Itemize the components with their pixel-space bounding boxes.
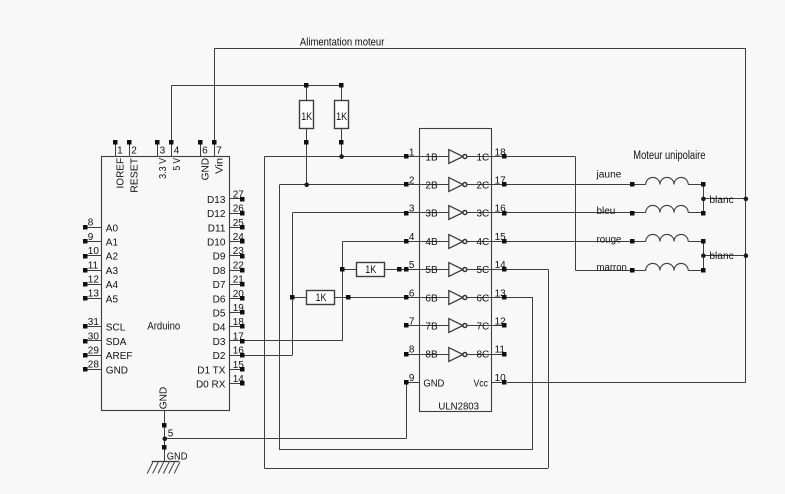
svg-text:marron: marron	[597, 262, 627, 273]
svg-text:14: 14	[233, 374, 245, 385]
svg-text:A1: A1	[106, 238, 119, 249]
svg-text:26: 26	[233, 204, 245, 215]
svg-text:A2: A2	[106, 252, 119, 263]
svg-text:GND: GND	[423, 378, 444, 389]
svg-text:6: 6	[409, 288, 415, 299]
svg-text:1: 1	[409, 147, 415, 158]
svg-text:2: 2	[131, 145, 137, 156]
svg-text:29: 29	[88, 346, 100, 357]
svg-text:11: 11	[88, 260, 99, 271]
svg-text:2: 2	[409, 176, 415, 187]
svg-text:D2: D2	[213, 351, 226, 362]
svg-text:3: 3	[160, 145, 166, 156]
svg-text:1C: 1C	[477, 152, 490, 163]
svg-text:3B: 3B	[425, 209, 438, 220]
svg-text:5: 5	[409, 260, 415, 271]
svg-text:4B: 4B	[425, 237, 438, 248]
svg-text:D10: D10	[207, 238, 226, 249]
svg-text:D5: D5	[213, 309, 226, 320]
svg-text:D0 RX: D0 RX	[196, 380, 226, 391]
svg-text:A0: A0	[106, 223, 119, 234]
svg-text:28: 28	[88, 360, 100, 371]
svg-text:17: 17	[495, 176, 507, 187]
svg-text:8C: 8C	[477, 350, 490, 361]
svg-text:31: 31	[88, 317, 100, 328]
svg-text:SCL: SCL	[106, 323, 126, 334]
svg-text:6: 6	[202, 145, 208, 156]
svg-text:5B: 5B	[425, 265, 438, 276]
svg-text:21: 21	[233, 275, 245, 286]
svg-text:3: 3	[409, 204, 415, 215]
svg-text:6C: 6C	[477, 293, 490, 304]
svg-text:15: 15	[495, 232, 507, 243]
svg-text:7: 7	[409, 317, 415, 328]
svg-text:2C: 2C	[477, 181, 490, 192]
svg-text:D11: D11	[208, 223, 226, 234]
svg-text:24: 24	[233, 232, 245, 243]
svg-text:1: 1	[117, 145, 123, 156]
svg-text:D3: D3	[213, 337, 226, 348]
svg-text:D9: D9	[213, 252, 226, 263]
svg-text:13: 13	[88, 289, 100, 300]
svg-text:Alimentation moteur: Alimentation moteur	[300, 36, 385, 48]
svg-text:4: 4	[174, 145, 180, 156]
svg-text:12: 12	[495, 317, 507, 328]
svg-text:A5: A5	[106, 294, 119, 305]
svg-text:27: 27	[233, 189, 245, 200]
svg-text:blanc: blanc	[709, 251, 733, 262]
svg-text:GND: GND	[167, 451, 188, 462]
svg-text:D1 TX: D1 TX	[197, 365, 225, 376]
svg-text:8: 8	[409, 345, 415, 356]
svg-text:AREF: AREF	[106, 351, 133, 362]
svg-text:14: 14	[495, 260, 507, 271]
svg-text:D13: D13	[207, 195, 226, 206]
svg-text:18: 18	[233, 317, 245, 328]
svg-text:bleu: bleu	[597, 206, 616, 217]
svg-text:D4: D4	[213, 323, 226, 334]
svg-text:D7: D7	[213, 280, 226, 291]
svg-text:Moteur unipolaire: Moteur unipolaire	[633, 150, 705, 162]
svg-text:6B: 6B	[425, 293, 438, 304]
svg-text:9: 9	[88, 232, 94, 243]
svg-text:1B: 1B	[425, 152, 438, 163]
svg-text:jaune: jaune	[595, 170, 621, 181]
svg-text:4: 4	[409, 232, 415, 243]
svg-text:12: 12	[88, 275, 100, 286]
svg-text:D6: D6	[213, 294, 226, 305]
svg-text:7C: 7C	[477, 322, 490, 333]
svg-text:5: 5	[168, 428, 174, 439]
svg-text:4C: 4C	[477, 237, 490, 248]
svg-text:GND: GND	[106, 365, 128, 376]
svg-text:1K: 1K	[365, 264, 377, 276]
svg-text:3C: 3C	[477, 209, 490, 220]
svg-text:GND: GND	[158, 387, 169, 410]
svg-text:13: 13	[495, 288, 507, 299]
svg-text:1K: 1K	[336, 111, 348, 123]
svg-text:rouge: rouge	[597, 234, 622, 245]
svg-text:Vin: Vin	[215, 158, 226, 174]
svg-text:Arduino: Arduino	[147, 320, 180, 332]
svg-text:20: 20	[233, 289, 245, 300]
svg-text:3.3 V: 3.3 V	[158, 158, 169, 179]
svg-text:17: 17	[233, 331, 245, 342]
svg-text:7: 7	[216, 145, 222, 156]
svg-text:1K: 1K	[316, 292, 328, 304]
svg-text:22: 22	[233, 260, 245, 271]
svg-text:IOREF: IOREF	[116, 158, 127, 189]
svg-text:11: 11	[495, 345, 506, 356]
svg-text:15: 15	[233, 360, 245, 371]
svg-text:1K: 1K	[301, 111, 313, 123]
svg-text:blanc: blanc	[709, 195, 733, 206]
svg-text:SDA: SDA	[106, 337, 127, 348]
svg-text:9: 9	[409, 373, 415, 384]
svg-text:25: 25	[233, 218, 245, 229]
svg-text:Vcc: Vcc	[474, 378, 489, 389]
svg-text:5C: 5C	[477, 265, 490, 276]
svg-text:10: 10	[495, 373, 507, 384]
svg-text:8: 8	[88, 218, 94, 229]
svg-text:7B: 7B	[425, 322, 438, 333]
svg-text:30: 30	[88, 331, 100, 342]
svg-text:5 V: 5 V	[172, 158, 183, 171]
svg-text:A4: A4	[106, 280, 119, 291]
svg-text:GND: GND	[201, 158, 212, 181]
svg-text:10: 10	[88, 246, 100, 257]
svg-text:16: 16	[495, 204, 507, 215]
svg-text:ULN2803: ULN2803	[438, 401, 479, 413]
svg-text:A3: A3	[106, 266, 119, 277]
svg-text:RESET: RESET	[130, 158, 141, 193]
svg-text:23: 23	[233, 246, 245, 257]
svg-text:18: 18	[495, 147, 507, 158]
svg-text:2B: 2B	[425, 181, 438, 192]
svg-text:8B: 8B	[425, 350, 438, 361]
svg-text:D8: D8	[213, 266, 226, 277]
svg-text:16: 16	[233, 346, 245, 357]
svg-text:D12: D12	[207, 209, 226, 220]
svg-text:19: 19	[233, 303, 245, 314]
